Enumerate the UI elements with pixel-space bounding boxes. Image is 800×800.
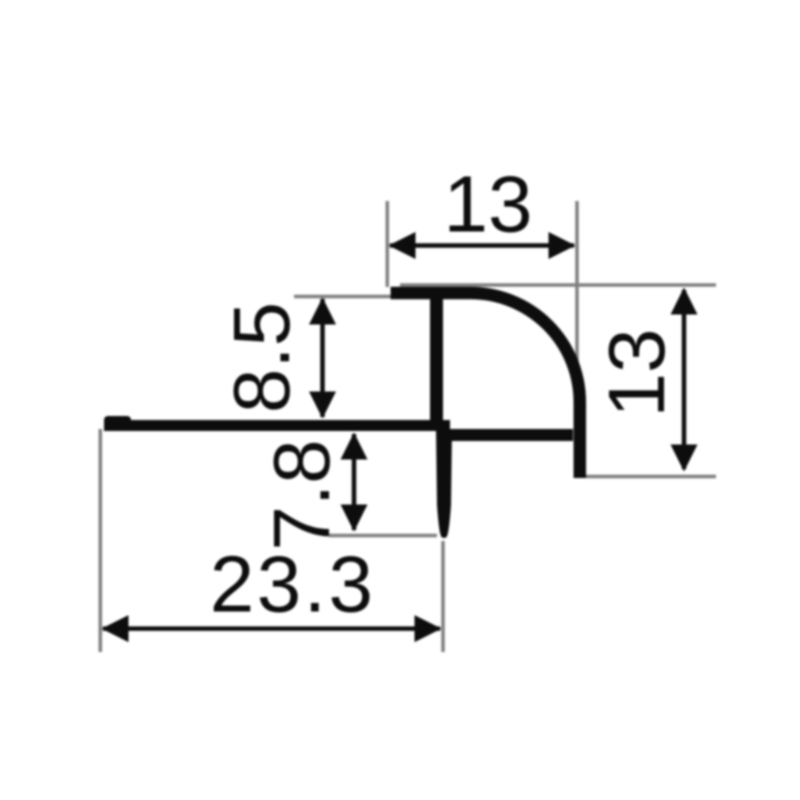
svg-text:7.8: 7.8 bbox=[257, 439, 346, 550]
svg-text:13: 13 bbox=[592, 329, 681, 418]
svg-text:23.3: 23.3 bbox=[210, 540, 376, 629]
svg-text:8.5: 8.5 bbox=[217, 302, 306, 413]
svg-text:13: 13 bbox=[444, 160, 533, 249]
